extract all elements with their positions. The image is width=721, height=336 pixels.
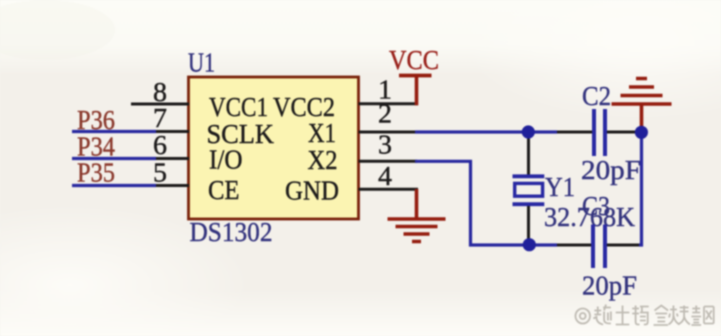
pin 3 of U1 (359, 130, 418, 162)
pin 8 of U1 (131, 77, 189, 107)
IC U1 DS1302 body (189, 77, 359, 219)
capacitor C2 (557, 109, 638, 156)
svg-text:2: 2 (378, 99, 392, 129)
svg-text:X1: X1 (308, 118, 336, 148)
svg-text:6: 6 (153, 130, 167, 160)
net label P35 (77, 158, 115, 188)
svg-text:7: 7 (153, 103, 167, 133)
svg-text:C2: C2 (582, 81, 611, 111)
wire X1 from pin 2 to junction A (415, 130, 529, 133)
svg-text:I/O: I/O (209, 144, 243, 174)
junction A (X1 node) (522, 125, 535, 138)
wire X2 from pin 3 down and right to junction C (415, 161, 529, 245)
Y1 designator (545, 172, 575, 202)
Y1 value 32.768K (544, 202, 635, 232)
wire right vertical from junction B down to C3 (639, 132, 642, 245)
svg-text:CE: CE (208, 175, 240, 205)
svg-text:P35: P35 (77, 158, 115, 188)
C2 value 20pF (581, 155, 641, 185)
ground symbol at top right (612, 79, 672, 131)
wire net P34 to pin 6 (72, 157, 156, 160)
junction C (X2 node bottom) (523, 238, 536, 251)
svg-text:C3: C3 (582, 191, 610, 221)
svg-text:VCC1: VCC1 (209, 92, 268, 122)
svg-text:20pF: 20pF (582, 271, 637, 301)
C2 designator (582, 81, 611, 111)
svg-text:U1: U1 (188, 48, 215, 78)
net label P34 (77, 132, 115, 162)
U1 pin name X1 (308, 118, 336, 148)
wire net P35 to pin 5 (72, 184, 156, 187)
pin 5 of U1 (146, 158, 189, 188)
U1 pin name GND (285, 175, 339, 205)
watermark @xitu juejin (575, 305, 713, 326)
U1 value label DS1302 (190, 217, 273, 247)
wire X1 junction A to C2 stub (529, 130, 557, 133)
C3 designator (582, 191, 610, 221)
pin 2 of U1 (359, 99, 418, 133)
crystal Y1 (513, 132, 545, 245)
ground symbol at pin 4 (388, 189, 446, 242)
svg-text:GND: GND (285, 175, 339, 205)
U1 pin name VCC1 (209, 92, 268, 122)
U1 pin name I/O (209, 144, 243, 174)
junction B (ground node top right) (635, 126, 648, 139)
U1 pin name X2 (308, 145, 338, 175)
svg-text:X2: X2 (308, 145, 338, 175)
VCC power symbol (389, 45, 439, 105)
svg-text:VCC: VCC (389, 45, 439, 75)
svg-text:4: 4 (378, 161, 393, 191)
svg-text:5: 5 (153, 158, 167, 188)
capacitor C3 (557, 225, 640, 269)
svg-text:20pF: 20pF (581, 155, 641, 185)
net label P36 (77, 105, 115, 135)
pin 7 of U1 (146, 103, 189, 133)
C3 value 20pF (582, 271, 637, 301)
pin 1 of U1 (359, 75, 419, 105)
wire X2 junction C to C3 stub (529, 243, 557, 246)
U1 pin name VCC2 (273, 92, 335, 122)
U1 designator (188, 48, 215, 78)
wire net P36 to pin 7 (72, 130, 156, 133)
svg-text:P36: P36 (77, 105, 115, 135)
U1 pin name SCLK (207, 119, 275, 149)
U1 pin name CE (208, 175, 240, 205)
pin 6 of U1 (146, 130, 189, 160)
pin 4 of U1 (359, 161, 419, 191)
svg-text:DS1302: DS1302 (190, 217, 273, 247)
svg-text:Y1: Y1 (545, 172, 575, 202)
svg-text:3: 3 (378, 130, 392, 160)
